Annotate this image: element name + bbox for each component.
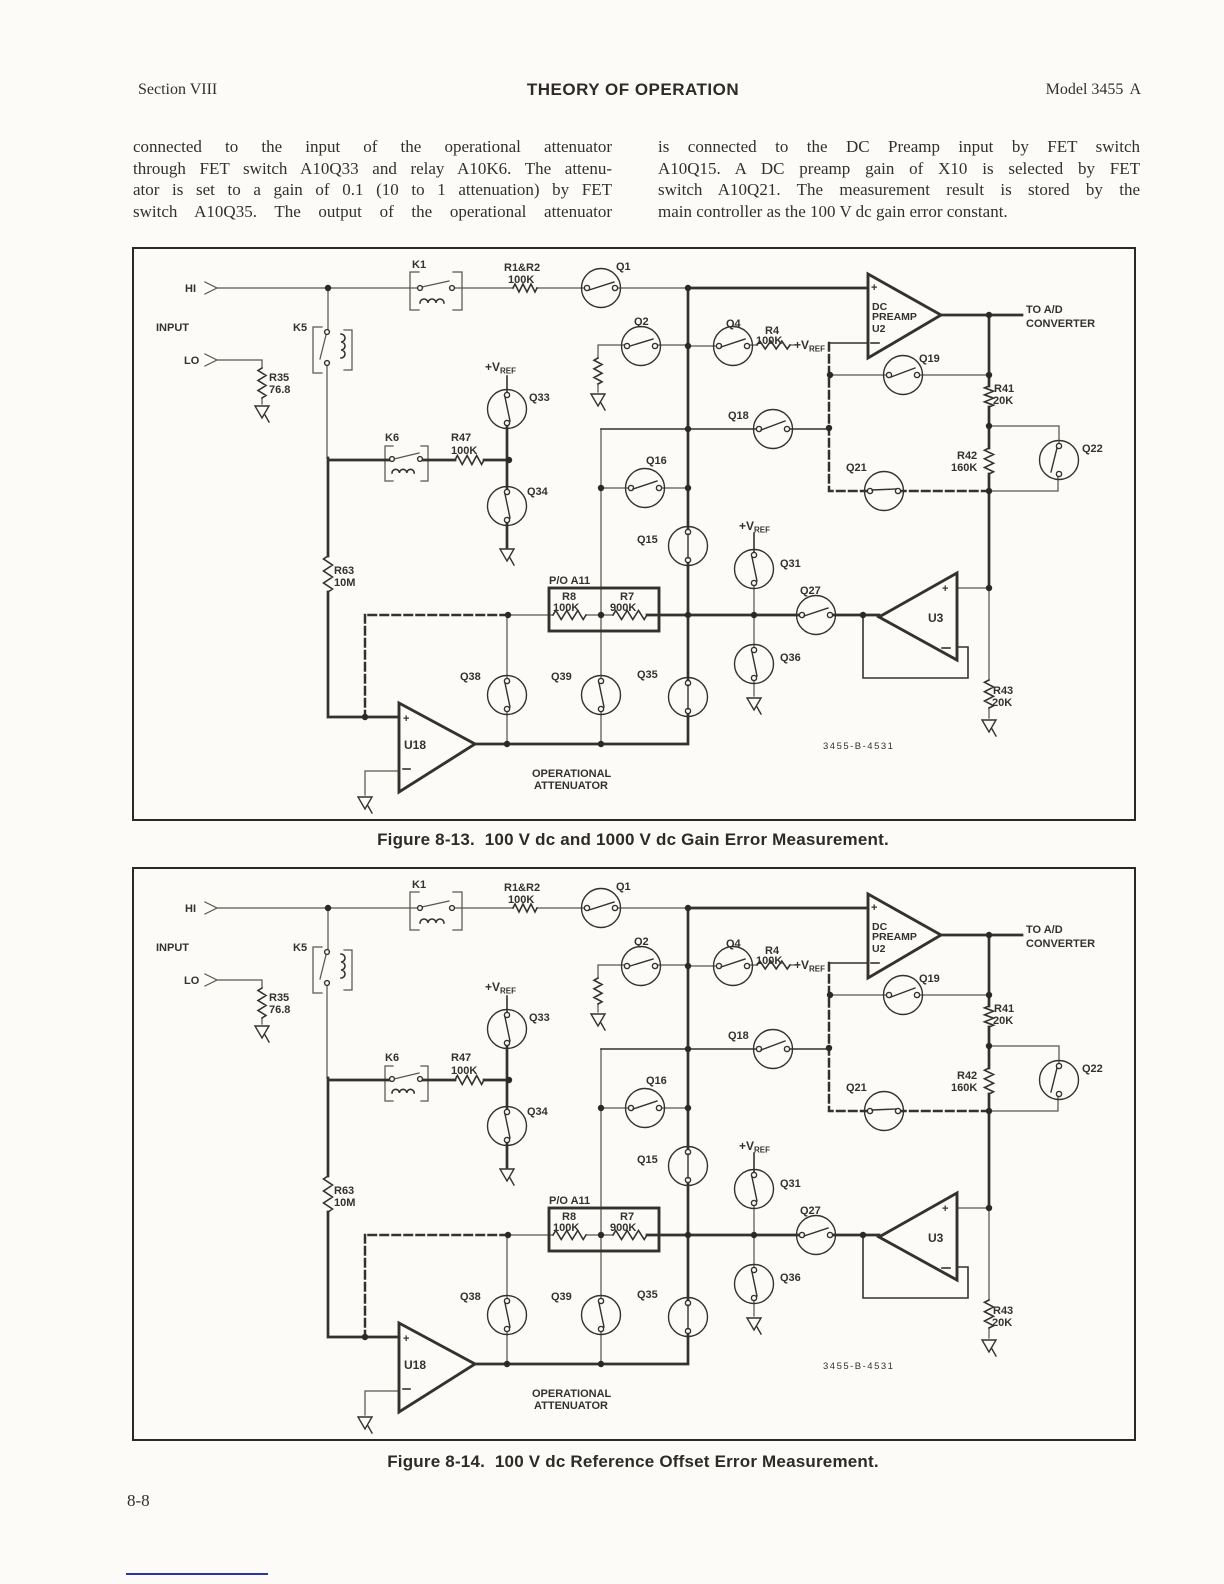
svg-text:Q16: Q16 (646, 455, 667, 467)
svg-text:CONVERTER: CONVERTER (1026, 318, 1095, 330)
svg-text:ATTENUATOR: ATTENUATOR (534, 780, 608, 792)
svg-text:3455-B-4531: 3455-B-4531 (823, 741, 894, 752)
svg-text:REF: REF (754, 526, 770, 535)
svg-text:R63: R63 (334, 565, 354, 577)
svg-text:R1&R2: R1&R2 (504, 262, 540, 274)
svg-text:Q34: Q34 (527, 486, 549, 498)
svg-text:HI: HI (185, 283, 196, 295)
svg-text:+V: +V (739, 519, 754, 533)
svg-text:Q38: Q38 (460, 671, 481, 683)
svg-text:+: + (403, 713, 409, 725)
svg-text:Q39: Q39 (551, 671, 572, 683)
svg-text:100K: 100K (508, 274, 534, 286)
svg-text:Q27: Q27 (800, 585, 821, 597)
svg-text:100K: 100K (451, 445, 477, 457)
svg-text:Q1: Q1 (616, 261, 631, 273)
svg-text:Q21: Q21 (846, 462, 867, 474)
svg-text:R43: R43 (993, 685, 1013, 697)
svg-text:20K: 20K (992, 697, 1012, 709)
svg-text:K6: K6 (385, 432, 399, 444)
svg-text:Q2: Q2 (634, 316, 649, 328)
svg-text:PREAMP: PREAMP (872, 311, 917, 323)
svg-text:+V: +V (485, 360, 500, 374)
svg-text:U18: U18 (404, 738, 426, 752)
svg-text:R35: R35 (269, 372, 289, 384)
svg-text:P/O A11: P/O A11 (549, 575, 590, 587)
svg-text:U3: U3 (928, 611, 944, 625)
svg-text:100K: 100K (553, 602, 579, 614)
svg-text:+: + (942, 583, 948, 595)
svg-text:10M: 10M (334, 577, 355, 589)
svg-text:R47: R47 (451, 432, 471, 444)
svg-text:900K: 900K (610, 602, 636, 614)
svg-text:K1: K1 (412, 259, 426, 271)
svg-text:Q19: Q19 (919, 353, 940, 365)
svg-text:REF: REF (500, 367, 516, 376)
svg-text:K5: K5 (293, 322, 307, 334)
svg-text:Q33: Q33 (529, 392, 550, 404)
svg-text:+: + (871, 282, 877, 294)
svg-text:76.8: 76.8 (269, 384, 290, 396)
svg-text:Q4: Q4 (726, 318, 742, 330)
svg-text:100K: 100K (756, 335, 782, 347)
svg-text:Q36: Q36 (780, 652, 801, 664)
svg-text:Q35: Q35 (637, 669, 658, 681)
svg-text:R42: R42 (957, 450, 977, 462)
svg-text:160K: 160K (951, 462, 977, 474)
svg-text:LO: LO (184, 355, 200, 367)
svg-text:OPERATIONAL: OPERATIONAL (532, 768, 612, 780)
svg-text:R41: R41 (994, 383, 1014, 395)
svg-text:U2: U2 (872, 323, 886, 335)
svg-text:TO A/D: TO A/D (1026, 304, 1063, 316)
svg-text:20K: 20K (993, 395, 1013, 407)
svg-text:Q15: Q15 (637, 534, 658, 546)
svg-text:INPUT: INPUT (156, 322, 189, 334)
svg-text:Q22: Q22 (1082, 443, 1103, 455)
svg-text:Q18: Q18 (728, 410, 749, 422)
svg-text:+V: +V (794, 338, 809, 352)
svg-text:REF: REF (809, 345, 825, 354)
svg-text:Q31: Q31 (780, 558, 801, 570)
